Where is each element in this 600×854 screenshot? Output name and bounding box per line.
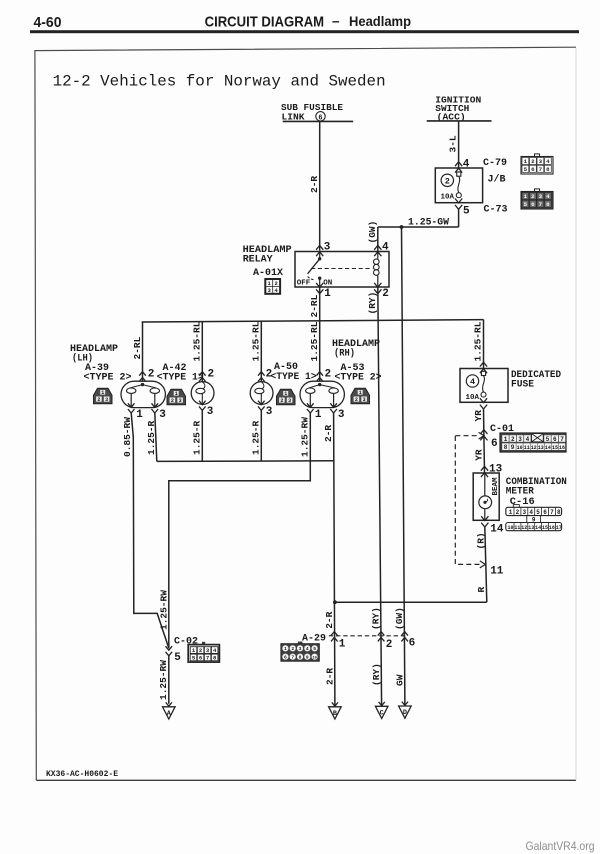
svg-text:2: 2 xyxy=(445,176,450,186)
svg-text:1.25-R: 1.25-R xyxy=(251,420,262,455)
svg-text:7: 7 xyxy=(550,509,554,516)
svg-text:C: C xyxy=(380,710,384,718)
ground D xyxy=(399,702,412,719)
svg-text:4: 4 xyxy=(526,436,530,443)
fuse 2 circled number xyxy=(441,174,453,186)
fuse symbol in J/B xyxy=(456,172,461,198)
headlamp A-50 single-filament bulb xyxy=(250,382,273,405)
svg-text:7: 7 xyxy=(560,436,564,443)
svg-text:11: 11 xyxy=(524,445,530,451)
svg-text:11: 11 xyxy=(514,525,520,531)
circled fuse number 4 xyxy=(466,375,478,387)
ground A xyxy=(163,702,176,719)
svg-text:(R): (R) xyxy=(475,532,486,549)
svg-text:8: 8 xyxy=(557,509,561,516)
svg-text:1.25-RL: 1.25-RL xyxy=(250,321,261,361)
svg-text:10A: 10A xyxy=(466,394,480,402)
svg-text:J/B: J/B xyxy=(488,174,506,186)
svg-text:A-01X: A-01X xyxy=(253,268,283,279)
svg-text:7: 7 xyxy=(539,201,543,208)
svg-text:ON: ON xyxy=(323,279,332,287)
svg-text:2: 2 xyxy=(266,368,273,380)
svg-text:2: 2 xyxy=(382,288,389,300)
wire to dedicated fuse xyxy=(483,320,485,369)
svg-text:2-R: 2-R xyxy=(323,425,334,442)
connector C-73 pin 5 arrows xyxy=(455,199,462,203)
header rule xyxy=(30,30,579,33)
A-53 pin layout icon xyxy=(351,388,370,404)
svg-text:4: 4 xyxy=(546,158,550,165)
svg-text:4: 4 xyxy=(546,193,550,200)
relay coil link dashed xyxy=(311,268,373,270)
svg-text:FUSE: FUSE xyxy=(511,379,534,390)
relay connector pin grid 2x2 xyxy=(265,279,280,294)
svg-text:<TYPE 2>: <TYPE 2> xyxy=(84,373,132,384)
svg-text:1: 1 xyxy=(101,390,104,396)
svg-text:2: 2 xyxy=(171,398,174,404)
C-01 pin 6 arrows xyxy=(480,430,487,434)
svg-text:3: 3 xyxy=(324,242,331,254)
dashed option wire xyxy=(455,436,479,564)
A-39 bottom pin arrows xyxy=(128,403,135,407)
svg-text:7: 7 xyxy=(539,166,543,173)
meter pin 13 arrows xyxy=(481,466,488,470)
fuse bottom arrows xyxy=(480,398,487,402)
A-29 pin 1 arrows xyxy=(331,632,338,636)
connector C-02 pin grid xyxy=(188,642,219,662)
A-50 pin 3 arrows xyxy=(258,401,265,405)
connector A-29 pin grid xyxy=(281,642,319,662)
svg-text:3-L: 3-L xyxy=(448,135,459,152)
wire YR fuse to C-01 xyxy=(483,409,485,436)
svg-text:1: 1 xyxy=(315,409,322,421)
svg-text:(GW): (GW) xyxy=(367,221,378,244)
svg-text:1: 1 xyxy=(284,391,287,397)
svg-text:1: 1 xyxy=(504,436,508,443)
svg-text:2-R: 2-R xyxy=(324,611,335,628)
wire (R) meter pin 14 down xyxy=(485,527,487,602)
svg-text:6: 6 xyxy=(491,438,498,450)
svg-text:1: 1 xyxy=(136,409,143,421)
svg-text:2-RL: 2-RL xyxy=(309,294,320,317)
svg-text:1: 1 xyxy=(359,390,362,396)
svg-text:A-29: A-29 xyxy=(302,633,326,644)
svg-text:3: 3 xyxy=(266,406,273,418)
svg-text:1: 1 xyxy=(284,646,287,652)
svg-text:7: 7 xyxy=(291,655,294,661)
svg-text:R: R xyxy=(476,587,487,593)
svg-text:2-R: 2-R xyxy=(324,668,335,685)
relay pin 4 arrows xyxy=(374,245,381,249)
A-42 pin 3 arrows xyxy=(199,401,206,405)
svg-text:14: 14 xyxy=(490,523,504,535)
svg-text:12-2 Vehicles for Norway and S: 12-2 Vehicles for Norway and Sweden xyxy=(53,72,386,90)
svg-text:RELAY: RELAY xyxy=(243,254,273,265)
svg-text:4: 4 xyxy=(529,509,533,516)
wire to A-42 pin 2 xyxy=(201,322,203,382)
svg-text:3: 3 xyxy=(539,158,543,165)
headlamp A-42 single-filament bulb xyxy=(191,382,214,405)
connector C-16 pin grid xyxy=(506,505,562,532)
headlamp feed bus wire xyxy=(142,320,484,322)
junction node R/2-R xyxy=(333,600,337,604)
headlamp A-39 two-filament bulb xyxy=(121,381,165,407)
dedicated fuse box xyxy=(460,369,508,403)
svg-text:3: 3 xyxy=(179,398,182,404)
svg-text:C-79: C-79 xyxy=(483,158,507,169)
wire (GW) into relay pin 4 xyxy=(377,227,379,252)
connector C-01 pin grid xyxy=(500,433,566,452)
svg-text:12: 12 xyxy=(531,445,537,451)
svg-text:2: 2 xyxy=(531,158,535,165)
A-29 connector dashed line xyxy=(329,635,407,637)
sub fusible link (6) xyxy=(281,102,353,122)
svg-text:13: 13 xyxy=(538,445,544,451)
svg-text:8: 8 xyxy=(546,201,550,208)
svg-text:2: 2 xyxy=(291,646,294,652)
A-42 pin layout icon xyxy=(167,389,186,405)
wire 1.25-GW horizontal xyxy=(378,226,459,228)
A-53 bottom pin arrows xyxy=(307,403,314,407)
C-02 pin 5 arrows xyxy=(166,646,173,650)
svg-text:1.25-RL: 1.25-RL xyxy=(473,321,484,361)
svg-text:10: 10 xyxy=(312,657,317,661)
meter pin 14 arrows xyxy=(481,516,488,520)
svg-text:1.25-RW: 1.25-RW xyxy=(300,417,311,457)
wire 2-RL relay pin1 to bus xyxy=(319,287,321,381)
svg-text:2: 2 xyxy=(355,397,358,403)
svg-text:8: 8 xyxy=(504,444,508,451)
A-39 pin layout icon xyxy=(94,388,113,404)
svg-text:GalantVR4.org: GalantVR4.org xyxy=(526,839,595,853)
fuse top arrows xyxy=(480,362,487,366)
connector C-79 pin 4 arrows xyxy=(455,162,462,166)
svg-text:<TYPE 1>: <TYPE 1> xyxy=(157,373,204,384)
svg-text:METER: METER xyxy=(506,486,534,497)
svg-text:11: 11 xyxy=(490,565,504,577)
relay pin 1 arrows xyxy=(316,283,323,287)
svg-text:1.25-R: 1.25-R xyxy=(146,420,157,455)
svg-text:6: 6 xyxy=(409,638,416,650)
wire 1.25-RW from A-53 pin 1 xyxy=(169,413,310,648)
svg-text:BEAM: BEAM xyxy=(492,477,500,496)
ground bus wire xyxy=(157,460,334,463)
svg-text:(RY): (RY) xyxy=(371,663,382,686)
svg-text:12: 12 xyxy=(521,525,527,531)
high beam indicator bulb xyxy=(479,473,492,520)
wire from J/B pin 5 xyxy=(458,209,460,227)
svg-text:Headlamp: Headlamp xyxy=(349,14,411,29)
svg-text:6: 6 xyxy=(531,166,535,173)
svg-text:4: 4 xyxy=(306,646,309,652)
svg-text:10: 10 xyxy=(507,525,513,531)
A-53 bottom pin arrows xyxy=(330,403,337,407)
relay pin 3 arrows xyxy=(316,245,323,249)
svg-text:D: D xyxy=(403,709,407,717)
combination meter box xyxy=(473,473,499,520)
svg-text:17: 17 xyxy=(556,525,562,531)
svg-text:3: 3 xyxy=(363,397,366,403)
svg-text:5: 5 xyxy=(313,646,316,652)
ignition switch (ACC) xyxy=(427,95,492,123)
junction node GW xyxy=(400,225,404,229)
svg-text:10A: 10A xyxy=(441,194,455,202)
svg-text:2-RL: 2-RL xyxy=(132,336,143,359)
svg-text:1: 1 xyxy=(524,193,528,200)
connector C-79 pin grid xyxy=(521,154,553,174)
svg-text:3: 3 xyxy=(159,409,166,421)
svg-text:2: 2 xyxy=(280,398,283,404)
svg-text:YR: YR xyxy=(474,449,485,461)
headlamp A-53 two-filament bulb xyxy=(300,381,344,407)
svg-text:0.85-RW: 0.85-RW xyxy=(122,417,133,457)
wire 3-L ignition switch to C-79 pin 4 xyxy=(458,121,460,168)
wire 1.25-RW to ground A xyxy=(168,656,170,704)
svg-text:1: 1 xyxy=(339,639,346,651)
svg-text:<TYPE 2>: <TYPE 2> xyxy=(335,373,382,384)
svg-text:2: 2 xyxy=(386,639,393,651)
svg-text:(RY): (RY) xyxy=(367,292,378,315)
relay switch contacts xyxy=(308,252,322,288)
svg-text:14: 14 xyxy=(545,445,551,451)
svg-text:5: 5 xyxy=(536,509,540,516)
svg-text:6: 6 xyxy=(531,201,535,208)
svg-text:OFF: OFF xyxy=(297,279,311,287)
wire 2-R from A-53 pin 3 to ground B xyxy=(334,413,335,706)
svg-text:8: 8 xyxy=(299,655,302,661)
relay pin 2 arrows xyxy=(374,283,381,287)
wire 1.25-R from A-50 pin 3 xyxy=(260,410,262,461)
svg-text:2: 2 xyxy=(97,397,100,403)
relay box U A-01X xyxy=(295,252,389,288)
svg-text:15: 15 xyxy=(552,445,558,451)
wire to A-50 pin 2 xyxy=(260,321,262,382)
svg-text:B: B xyxy=(333,710,337,718)
lamp pin 2 arrows xyxy=(139,372,146,376)
lamp pin 2 arrows xyxy=(199,372,206,376)
svg-text:5: 5 xyxy=(174,652,181,664)
wire 2-R from sub fusible link to relay pin 3 xyxy=(319,121,321,250)
svg-text:3: 3 xyxy=(338,409,345,421)
svg-text:5: 5 xyxy=(524,166,528,173)
wire (RY) relay pin2 down xyxy=(378,287,382,706)
svg-text:2: 2 xyxy=(275,280,278,287)
relay coil xyxy=(374,252,380,287)
svg-text:13: 13 xyxy=(528,525,534,531)
svg-text:3: 3 xyxy=(207,406,214,418)
wire YR C-01 to meter xyxy=(483,436,486,473)
A-50 pin layout icon xyxy=(277,389,296,405)
svg-text:YR: YR xyxy=(473,410,484,422)
wire 0.85-RW from A-39 pin 1 xyxy=(131,413,169,648)
svg-text:2: 2 xyxy=(148,368,155,380)
fuse element xyxy=(481,371,486,397)
lamp pin 2 arrows xyxy=(316,372,323,376)
svg-text:3: 3 xyxy=(518,436,522,443)
svg-text:–: – xyxy=(332,14,340,29)
ground B xyxy=(329,702,342,719)
svg-text:2: 2 xyxy=(531,193,535,200)
svg-text:6: 6 xyxy=(284,655,287,661)
svg-text:1.25-RL: 1.25-RL xyxy=(309,321,320,361)
A-29 pin 2 arrows xyxy=(378,632,385,636)
svg-text:1.25-GW: 1.25-GW xyxy=(408,218,449,229)
svg-text:5: 5 xyxy=(546,436,550,443)
svg-text:3: 3 xyxy=(105,397,108,403)
svg-text:(GW): (GW) xyxy=(394,607,405,630)
svg-text:14: 14 xyxy=(535,525,541,531)
arrow into node 11 xyxy=(480,561,486,568)
wire R to ground bus xyxy=(335,601,487,603)
svg-text:1: 1 xyxy=(524,158,528,165)
svg-text:3: 3 xyxy=(522,509,526,516)
connector C-73 pin grid xyxy=(521,189,553,209)
svg-text:2: 2 xyxy=(208,368,215,380)
svg-text:(RH): (RH) xyxy=(334,347,355,359)
svg-text:2-R: 2-R xyxy=(309,176,320,193)
svg-text:6: 6 xyxy=(543,509,547,516)
wire (GW) junction to ground D xyxy=(402,227,405,706)
A-29 pin 6 arrows xyxy=(401,632,408,636)
svg-text:8: 8 xyxy=(546,166,550,173)
svg-text:3: 3 xyxy=(288,398,291,404)
wire 1.25-R from A-42 pin 3 xyxy=(201,410,203,461)
svg-text:4-60: 4-60 xyxy=(34,14,62,31)
svg-text:2: 2 xyxy=(325,368,332,380)
svg-text:5: 5 xyxy=(524,201,528,208)
ground C xyxy=(375,702,388,719)
svg-text:10: 10 xyxy=(517,445,523,451)
svg-text:5: 5 xyxy=(463,206,470,218)
svg-text:16: 16 xyxy=(559,445,565,451)
svg-text:2: 2 xyxy=(516,509,520,516)
svg-text:9: 9 xyxy=(511,444,515,451)
svg-text:(RY): (RY) xyxy=(371,607,382,630)
svg-text:9: 9 xyxy=(306,655,309,661)
svg-text:1.25-RW: 1.25-RW xyxy=(158,660,169,700)
svg-text:7: 7 xyxy=(206,654,209,661)
svg-text:1.25-RL: 1.25-RL xyxy=(191,321,202,361)
svg-text:1: 1 xyxy=(509,509,513,516)
svg-text:C-02: C-02 xyxy=(174,636,198,647)
svg-text:1.25-RW: 1.25-RW xyxy=(158,590,169,630)
svg-text:3: 3 xyxy=(299,646,302,652)
lamp pin 2 arrows xyxy=(258,372,265,376)
wire to A-39 pin 2 xyxy=(142,322,144,381)
svg-text:2: 2 xyxy=(511,436,515,443)
svg-text:C-73: C-73 xyxy=(484,205,508,216)
svg-text:1: 1 xyxy=(175,391,178,397)
svg-text:4: 4 xyxy=(470,377,475,387)
svg-text:CIRCUIT DIAGRAM: CIRCUIT DIAGRAM xyxy=(205,13,325,30)
svg-text:3: 3 xyxy=(539,193,543,200)
wire 1.25-R from A-39 pin 3 xyxy=(155,413,157,461)
svg-text:1.25-R: 1.25-R xyxy=(192,420,203,455)
svg-text:16: 16 xyxy=(549,525,555,531)
svg-text:4: 4 xyxy=(382,242,389,254)
svg-text:15: 15 xyxy=(542,525,548,531)
A-39 bottom pin arrows xyxy=(152,403,159,407)
svg-text:KX36-AC-H0602-E: KX36-AC-H0602-E xyxy=(46,770,118,779)
svg-text:1: 1 xyxy=(324,288,331,300)
diagram border frame xyxy=(35,47,576,780)
dashed branch at C-01 pin 6 xyxy=(455,435,479,437)
junction block J/B box xyxy=(435,168,482,203)
svg-text:6: 6 xyxy=(553,436,557,443)
